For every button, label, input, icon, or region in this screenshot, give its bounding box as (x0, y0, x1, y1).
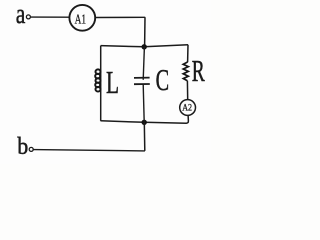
label C (156, 63, 170, 97)
node bottom junction (142, 120, 147, 125)
svg-text:b: b (17, 134, 28, 160)
wire R top drop (187, 45, 189, 63)
resistor R (183, 62, 188, 81)
wire box left vertical (100, 46, 102, 121)
wire b horizontal (33, 150, 144, 151)
wire A2 to bottom rail (186, 115, 189, 123)
svg-text:A2: A2 (182, 102, 192, 112)
node a label (16, 0, 26, 30)
wire a to A1 (31, 16, 70, 18)
wire A1 to top corner (95, 16, 145, 18)
svg-text:C: C (156, 63, 170, 97)
node b label (17, 134, 28, 160)
wire bottom rail (101, 121, 187, 123)
ammeter A1 (69, 5, 95, 31)
wire top drop (144, 17, 146, 47)
svg-text:A1: A1 (75, 13, 87, 28)
wire b riser (143, 122, 146, 151)
ammeter A2 (180, 100, 196, 116)
svg-text:L: L (106, 64, 119, 100)
label R (192, 54, 205, 88)
capacitor C (134, 47, 150, 123)
node top junction (142, 44, 147, 49)
svg-text:R: R (192, 54, 205, 88)
terminal b (29, 147, 33, 151)
label L (106, 64, 119, 100)
inductor L (95, 69, 100, 91)
terminal a (26, 15, 30, 19)
svg-text:a: a (16, 0, 26, 30)
wire R to A2 (186, 81, 188, 100)
wire top rail (101, 45, 188, 47)
